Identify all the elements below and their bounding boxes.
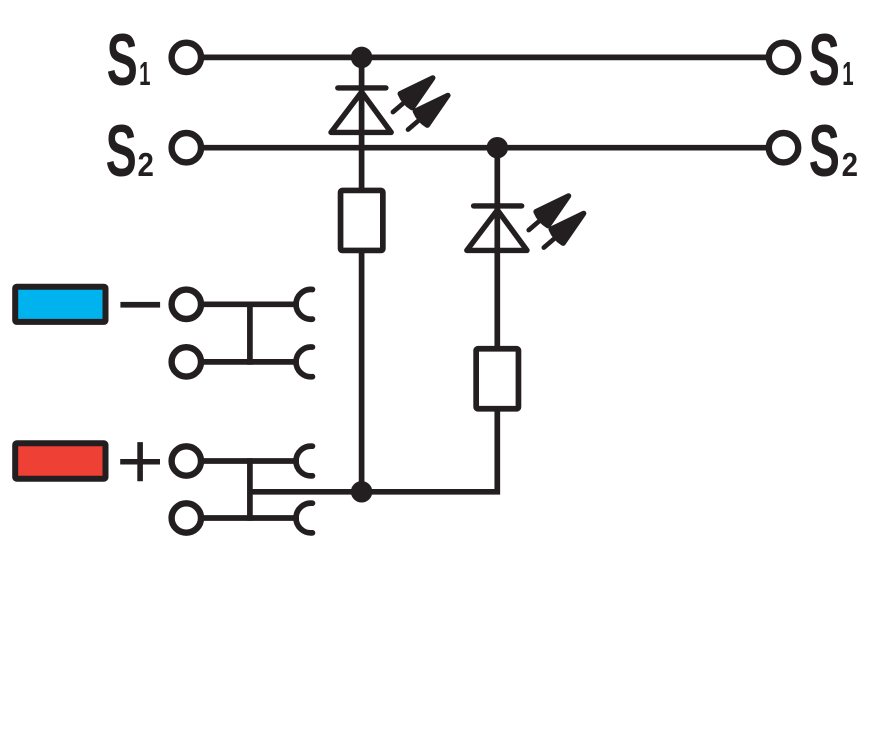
clamp fork minus lower — [296, 347, 312, 377]
terminal circle S2 right — [769, 133, 798, 162]
svg-text:S: S — [107, 20, 138, 101]
svg-text:S: S — [809, 19, 840, 100]
svg-text:2: 2 — [842, 145, 858, 183]
resistor R1 — [341, 190, 383, 250]
wire minus lower — [186, 359, 299, 365]
wire minus crossbar — [247, 302, 253, 365]
wire branch 1 vertical — [359, 57, 365, 491]
LED D2 light arrows — [523, 189, 590, 255]
LED D1 — [331, 88, 391, 132]
svg-text:2: 2 — [138, 145, 154, 183]
clamp fork plus lower — [296, 503, 312, 533]
wire plus lower — [186, 515, 299, 521]
wire plus upper — [186, 458, 299, 464]
svg-text:S: S — [106, 111, 137, 192]
clamp fork plus upper — [296, 446, 312, 476]
svg-text:1: 1 — [139, 55, 150, 92]
wire branch 2 vertical + bottom return — [250, 148, 497, 492]
marker blue (minus) — [15, 287, 105, 322]
node junction S2/branch2 — [487, 137, 509, 159]
plus sign — [120, 442, 160, 481]
node junction bottom — [351, 481, 373, 503]
node junction S1/branch1 — [351, 47, 373, 69]
LED D1 light arrows — [387, 71, 454, 137]
wire plus crossbar — [247, 458, 253, 521]
resistor R2 — [476, 349, 518, 409]
clamp fork minus upper — [296, 289, 312, 319]
minus sign — [120, 302, 160, 308]
terminal circle minus upper — [172, 290, 201, 319]
wire S2 rail — [186, 145, 783, 151]
terminal circle S1 left — [172, 43, 201, 72]
terminal circle minus lower — [172, 347, 201, 376]
marker red (plus) — [15, 443, 105, 478]
wire S1 rail — [186, 55, 783, 61]
svg-text:1: 1 — [842, 55, 853, 92]
LED D2 — [467, 206, 527, 251]
terminal circle S2 left — [172, 133, 201, 162]
terminal circle plus lower — [172, 503, 201, 532]
svg-text:S: S — [809, 111, 840, 192]
wire minus upper — [186, 301, 299, 307]
terminal circle plus upper — [172, 446, 201, 475]
terminal circle S1 right — [769, 43, 798, 72]
